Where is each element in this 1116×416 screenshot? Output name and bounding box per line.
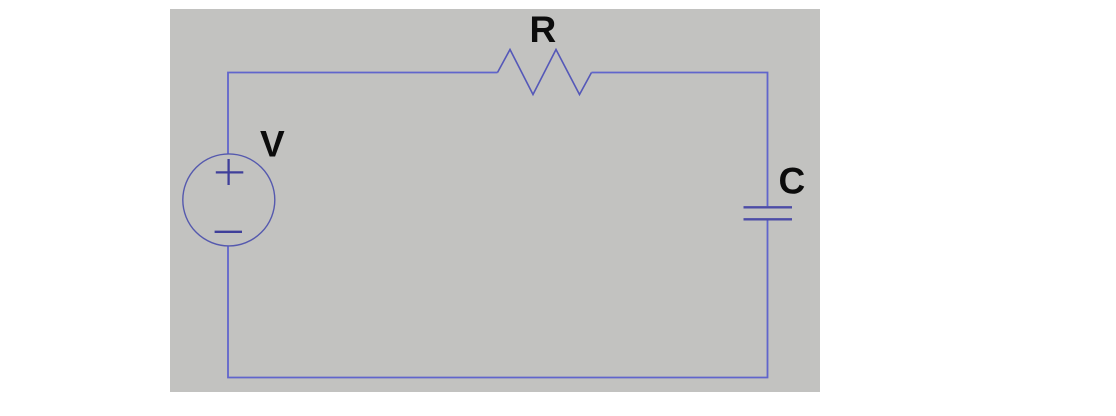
capacitor C plates bbox=[744, 207, 793, 219]
wire top-left: source top to resistor bbox=[228, 73, 498, 154]
resistor R bbox=[498, 50, 592, 95]
svg-text:C: C bbox=[779, 160, 806, 201]
voltage source V (circle) bbox=[183, 154, 275, 246]
plus terminal bbox=[216, 159, 244, 185]
wire bottom: source bottom to capacitor bottom bbox=[228, 220, 768, 377]
wire top-right: resistor to capacitor bbox=[592, 73, 768, 207]
svg-text:V: V bbox=[260, 123, 285, 164]
minus terminal bbox=[215, 231, 242, 233]
svg-text:R: R bbox=[530, 9, 557, 50]
gray schematic panel bbox=[170, 9, 820, 392]
